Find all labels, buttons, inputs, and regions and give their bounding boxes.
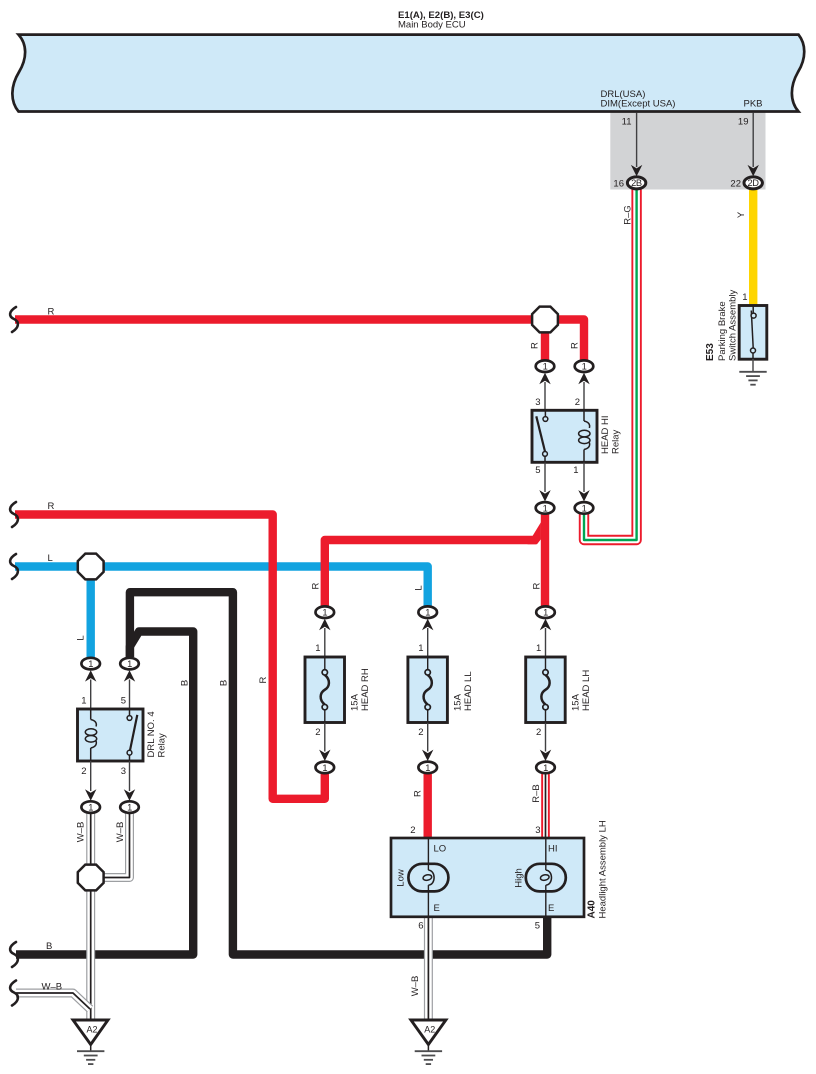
- svg-text:DIM(Except USA): DIM(Except USA): [601, 99, 676, 110]
- svg-text:2D: 2D: [747, 178, 759, 188]
- connector block shield (gray): [610, 113, 765, 190]
- connector 2B: [627, 177, 645, 189]
- svg-text:W–B: W–B: [76, 822, 87, 843]
- fuse HEAD RH box: [305, 657, 345, 723]
- svg-text:2: 2: [536, 727, 541, 738]
- svg-text:15A: 15A: [350, 693, 361, 711]
- svg-text:2: 2: [575, 397, 580, 408]
- svg-text:Main Body ECU: Main Body ECU: [398, 20, 466, 31]
- svg-text:1: 1: [536, 643, 541, 654]
- svg-text:11: 11: [622, 117, 632, 128]
- svg-text:E: E: [434, 903, 440, 914]
- svg-text:Low: Low: [396, 869, 407, 887]
- svg-text:R: R: [311, 582, 322, 589]
- wire R: second feed with long drop to HEAD RH fuse: [15, 515, 325, 799]
- E53 box: [739, 306, 767, 360]
- ground A2 left triangle: [73, 1020, 108, 1045]
- arrows into relay ovals: [539, 373, 550, 384]
- svg-text:E53: E53: [705, 343, 716, 361]
- svg-text:B: B: [46, 941, 52, 952]
- svg-text:L: L: [414, 585, 425, 590]
- break B: [10, 942, 18, 967]
- wire B: ground bus left branch (DRL relay pin2 area to left break): [16, 632, 193, 955]
- svg-text:2: 2: [410, 825, 415, 836]
- svg-text:Switch Assembly: Switch Assembly: [728, 289, 739, 361]
- relay coil: [583, 411, 585, 421]
- svg-text:HEAD RH: HEAD RH: [360, 668, 371, 711]
- relay box: [532, 410, 597, 462]
- top ovals: [81, 658, 100, 670]
- svg-text:2: 2: [418, 727, 423, 738]
- junction octagon W-B ground: [78, 865, 104, 891]
- svg-text:5: 5: [121, 696, 126, 707]
- pin 19 lead: [752, 113, 754, 168]
- wire L: blue feed from ECU side: [15, 567, 428, 607]
- svg-text:B: B: [180, 680, 191, 686]
- fuse HEAD LH top oval: [536, 606, 555, 618]
- fuse HEAD LH box: [526, 657, 566, 723]
- svg-text:PKB: PKB: [744, 99, 763, 110]
- wire R: relay pin5 to fuse junction: [325, 540, 536, 606]
- svg-text:R: R: [570, 342, 581, 349]
- wire R-B: HEAD LH fuse to headlight HI: [541, 773, 550, 839]
- wire R-G: DRL output to relay coil: [584, 190, 637, 541]
- svg-text:15A: 15A: [453, 693, 464, 711]
- relay switch: [129, 710, 131, 716]
- svg-text:3: 3: [535, 825, 540, 836]
- relay coil: [90, 710, 92, 720]
- svg-text:High: High: [514, 868, 525, 888]
- wire R: relay pin5 drop to HEAD LH fuse: [541, 513, 549, 606]
- svg-text:R–B: R–B: [531, 784, 542, 802]
- svg-text:15A: 15A: [570, 693, 581, 711]
- svg-text:A2: A2: [424, 1025, 435, 1035]
- svg-text:Headlight Assembly LH: Headlight Assembly LH: [598, 820, 609, 918]
- pin 11 lead: [636, 113, 638, 168]
- svg-text:19: 19: [738, 117, 749, 128]
- svg-text:Y: Y: [736, 211, 747, 218]
- wire W-B: left break branch into ground lead: [16, 993, 90, 1009]
- svg-text:A40: A40: [587, 900, 598, 919]
- svg-text:Relay: Relay: [157, 733, 168, 758]
- wire W-B: octagon to ground A2 left: [86, 884, 95, 1019]
- svg-text:HI: HI: [548, 844, 558, 855]
- svg-text:W–B: W–B: [410, 976, 421, 997]
- svg-text:6: 6: [418, 921, 423, 932]
- svg-text:HEAD LL: HEAD LL: [463, 671, 474, 711]
- switch contacts: [751, 306, 753, 359]
- svg-text:5: 5: [535, 921, 540, 932]
- wire B: ground bus right branch (to headlight pin5): [130, 592, 547, 954]
- svg-text:R: R: [532, 582, 543, 589]
- wire L: blue drop to DRL relay pin1: [86, 567, 94, 658]
- svg-text:R: R: [258, 676, 269, 683]
- svg-text:B: B: [219, 680, 230, 686]
- fuse HEAD LL top oval: [418, 606, 437, 618]
- svg-text:HEAD LH: HEAD LH: [581, 670, 592, 711]
- svg-text:R: R: [48, 307, 55, 318]
- wire Y: PKB to parking brake switch: [749, 190, 757, 308]
- break R top: [10, 307, 18, 332]
- svg-text:W–B: W–B: [42, 982, 63, 993]
- svg-text:3: 3: [535, 397, 540, 408]
- break R second: [10, 502, 18, 527]
- E53 ground: [752, 359, 754, 372]
- svg-text:A2: A2: [86, 1025, 97, 1035]
- break L: [10, 554, 18, 579]
- top ovals: [536, 360, 555, 372]
- wire R: junction diagonal: [528, 522, 541, 544]
- wire W-B: DRL relay pin3 to ground octagon: [103, 813, 130, 878]
- connector 2D: [744, 177, 762, 189]
- wire W-B: headlight pin6 to ground A2: [424, 917, 433, 1020]
- svg-text:HEAD HI: HEAD HI: [600, 415, 611, 454]
- svg-text:2: 2: [315, 727, 320, 738]
- wire R: top feed to HEAD HI relay: [15, 320, 584, 361]
- svg-text:5: 5: [535, 465, 540, 476]
- fuse HEAD RH top oval: [316, 606, 335, 618]
- svg-text:3: 3: [121, 766, 126, 777]
- svg-text:R–G: R–G: [623, 205, 634, 225]
- headlight box: [391, 838, 584, 917]
- break W-B: [10, 981, 18, 1006]
- junction octagon on L feed: [78, 554, 104, 580]
- Main Body ECU band: [12, 35, 804, 112]
- svg-text:Relay: Relay: [611, 429, 622, 454]
- svg-text:R: R: [530, 342, 541, 349]
- ground A2 middle triangle: [411, 1020, 446, 1045]
- svg-text:E: E: [548, 903, 554, 914]
- svg-text:1: 1: [573, 465, 578, 476]
- svg-text:LO: LO: [434, 844, 447, 855]
- relay switch: [544, 411, 546, 417]
- wire R: HEAD LL fuse to headlight LO: [424, 773, 432, 839]
- svg-text:1: 1: [81, 696, 86, 707]
- wire W-B: DRL relay pin2 to ground octagon: [86, 813, 95, 866]
- svg-text:R: R: [48, 501, 55, 512]
- svg-text:22: 22: [730, 179, 741, 190]
- svg-text:L: L: [48, 553, 53, 564]
- svg-text:R: R: [413, 790, 424, 797]
- bottom ovals: [536, 502, 555, 514]
- svg-text:2: 2: [81, 766, 86, 777]
- junction octagon on R feed: [532, 307, 558, 333]
- svg-text:W–B: W–B: [115, 822, 126, 843]
- svg-text:L: L: [76, 635, 87, 640]
- svg-text:Parking Brake: Parking Brake: [717, 301, 728, 361]
- svg-text:2B: 2B: [631, 178, 642, 188]
- svg-text:1: 1: [315, 643, 320, 654]
- svg-text:16: 16: [613, 179, 624, 190]
- low beam bulb: [408, 864, 448, 892]
- pin leads top: [544, 382, 546, 410]
- relay box: [78, 709, 144, 761]
- fuse HEAD LL box: [408, 657, 448, 723]
- svg-text:1: 1: [418, 643, 423, 654]
- svg-text:1: 1: [742, 292, 747, 303]
- high beam bulb: [526, 864, 566, 892]
- svg-text:DRL NO. 4: DRL NO. 4: [146, 711, 157, 757]
- wire R: drop from junction octagon: [541, 320, 549, 361]
